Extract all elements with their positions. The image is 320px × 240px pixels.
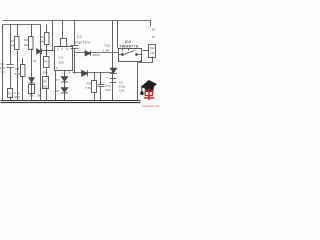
- svg-text:TWH8778: TWH8778: [119, 43, 139, 48]
- svg-text:+: +: [67, 42, 69, 46]
- svg-text:25k: 25k: [43, 85, 48, 89]
- svg-text:25V: 25V: [15, 95, 21, 99]
- svg-text:1: 1: [62, 72, 64, 76]
- svg-text:10µ/10V: 10µ/10V: [74, 40, 90, 44]
- svg-text:10k: 10k: [9, 44, 14, 48]
- svg-text:R2: R2: [10, 39, 14, 43]
- svg-text:2k: 2k: [33, 59, 37, 63]
- svg-text:7.5k: 7.5k: [85, 86, 91, 90]
- svg-text:R10: R10: [105, 44, 111, 48]
- svg-text:R4: R4: [24, 38, 28, 42]
- svg-text:IC1: IC1: [59, 56, 64, 60]
- svg-text:www.dzsc.com: www.dzsc.com: [142, 104, 160, 108]
- svg-text:8: 8: [67, 47, 69, 51]
- svg-text:2: 2: [57, 48, 59, 52]
- svg-text:555: 555: [59, 61, 64, 65]
- svg-text:20k: 20k: [39, 40, 44, 44]
- svg-text:R12: R12: [150, 46, 155, 50]
- svg-text:25k: 25k: [29, 94, 34, 98]
- svg-text:25V: 25V: [106, 88, 112, 92]
- svg-text:1k: 1k: [152, 35, 156, 39]
- svg-text:3n: 3n: [1, 70, 5, 74]
- svg-text:16V: 16V: [119, 89, 125, 93]
- svg-text:Z200: Z200: [93, 53, 100, 57]
- svg-text:C3: C3: [77, 35, 82, 39]
- svg-text:3k: 3k: [37, 94, 41, 98]
- svg-text:R5: R5: [40, 35, 44, 39]
- svg-text:D8: D8: [55, 89, 59, 93]
- svg-text:R5: R5: [44, 60, 48, 64]
- svg-text:4: 4: [61, 47, 63, 51]
- svg-text:6: 6: [56, 66, 58, 70]
- svg-text:5.6k: 5.6k: [15, 72, 21, 76]
- svg-text:R3: R3: [15, 67, 19, 71]
- svg-text:R6: R6: [43, 80, 47, 84]
- svg-text:3: 3: [69, 71, 71, 75]
- svg-text:+: +: [106, 76, 108, 80]
- svg-text:D7: D7: [55, 78, 59, 82]
- svg-text:R9: R9: [87, 82, 91, 86]
- svg-text:30k: 30k: [43, 71, 48, 75]
- svg-text:1.3M: 1.3M: [103, 49, 110, 53]
- svg-text:R1: R1: [8, 92, 12, 96]
- svg-text:1.5k: 1.5k: [149, 51, 155, 55]
- svg-text:10k: 10k: [24, 43, 29, 47]
